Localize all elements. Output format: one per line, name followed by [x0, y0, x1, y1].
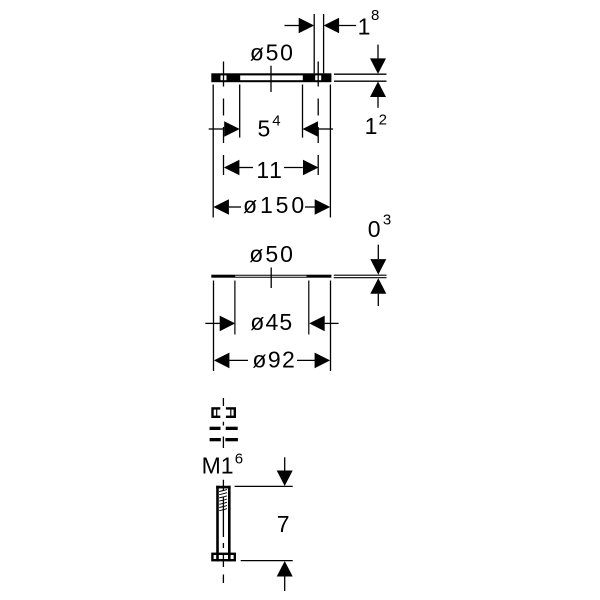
- label 0.3: [368, 212, 392, 242]
- dim 5.4: [209, 85, 333, 142]
- left hole centerline: [223, 62, 225, 176]
- svg-text:5: 5: [258, 116, 271, 142]
- svg-text:2: 2: [379, 112, 387, 129]
- screw body: [212, 486, 234, 562]
- small parts centerline: [222, 398, 224, 448]
- svg-text:3: 3: [383, 212, 391, 229]
- screw centerline: [222, 480, 224, 583]
- svg-text:0: 0: [368, 216, 381, 242]
- dim 0.3: [334, 245, 387, 306]
- svg-text:ø45: ø45: [250, 309, 293, 335]
- seal edge view 1: [210, 427, 238, 430]
- nut section view: [213, 406, 235, 419]
- washer cross-section body: [211, 73, 331, 82]
- svg-text:ø92: ø92: [252, 347, 296, 373]
- svg-text:ø50: ø50: [250, 40, 295, 66]
- seal cross-section: [211, 275, 331, 278]
- svg-text:4: 4: [272, 113, 280, 130]
- dim 1.2: [334, 45, 387, 139]
- dim ø150: [213, 85, 330, 219]
- svg-text:1: 1: [365, 113, 378, 139]
- label M1.6: [202, 450, 243, 478]
- seal center tick: [270, 268, 272, 289]
- dim ø92: [214, 281, 331, 373]
- seal edge view 2: [210, 438, 238, 441]
- dim 7: [235, 457, 293, 591]
- svg-text:ø150: ø150: [243, 192, 307, 218]
- dim 1.8: [285, 7, 380, 73]
- svg-text:M1: M1: [202, 452, 234, 478]
- svg-text:1: 1: [358, 13, 371, 39]
- svg-text:8: 8: [371, 7, 379, 24]
- svg-text:6: 6: [235, 450, 243, 467]
- washer center tick: [270, 66, 272, 92]
- right hole centerline: [317, 62, 319, 176]
- svg-text:ø50: ø50: [249, 241, 295, 267]
- dim 11: [224, 157, 319, 183]
- dim ø45: [205, 281, 338, 336]
- svg-text:7: 7: [277, 511, 290, 537]
- svg-text:11: 11: [256, 157, 283, 183]
